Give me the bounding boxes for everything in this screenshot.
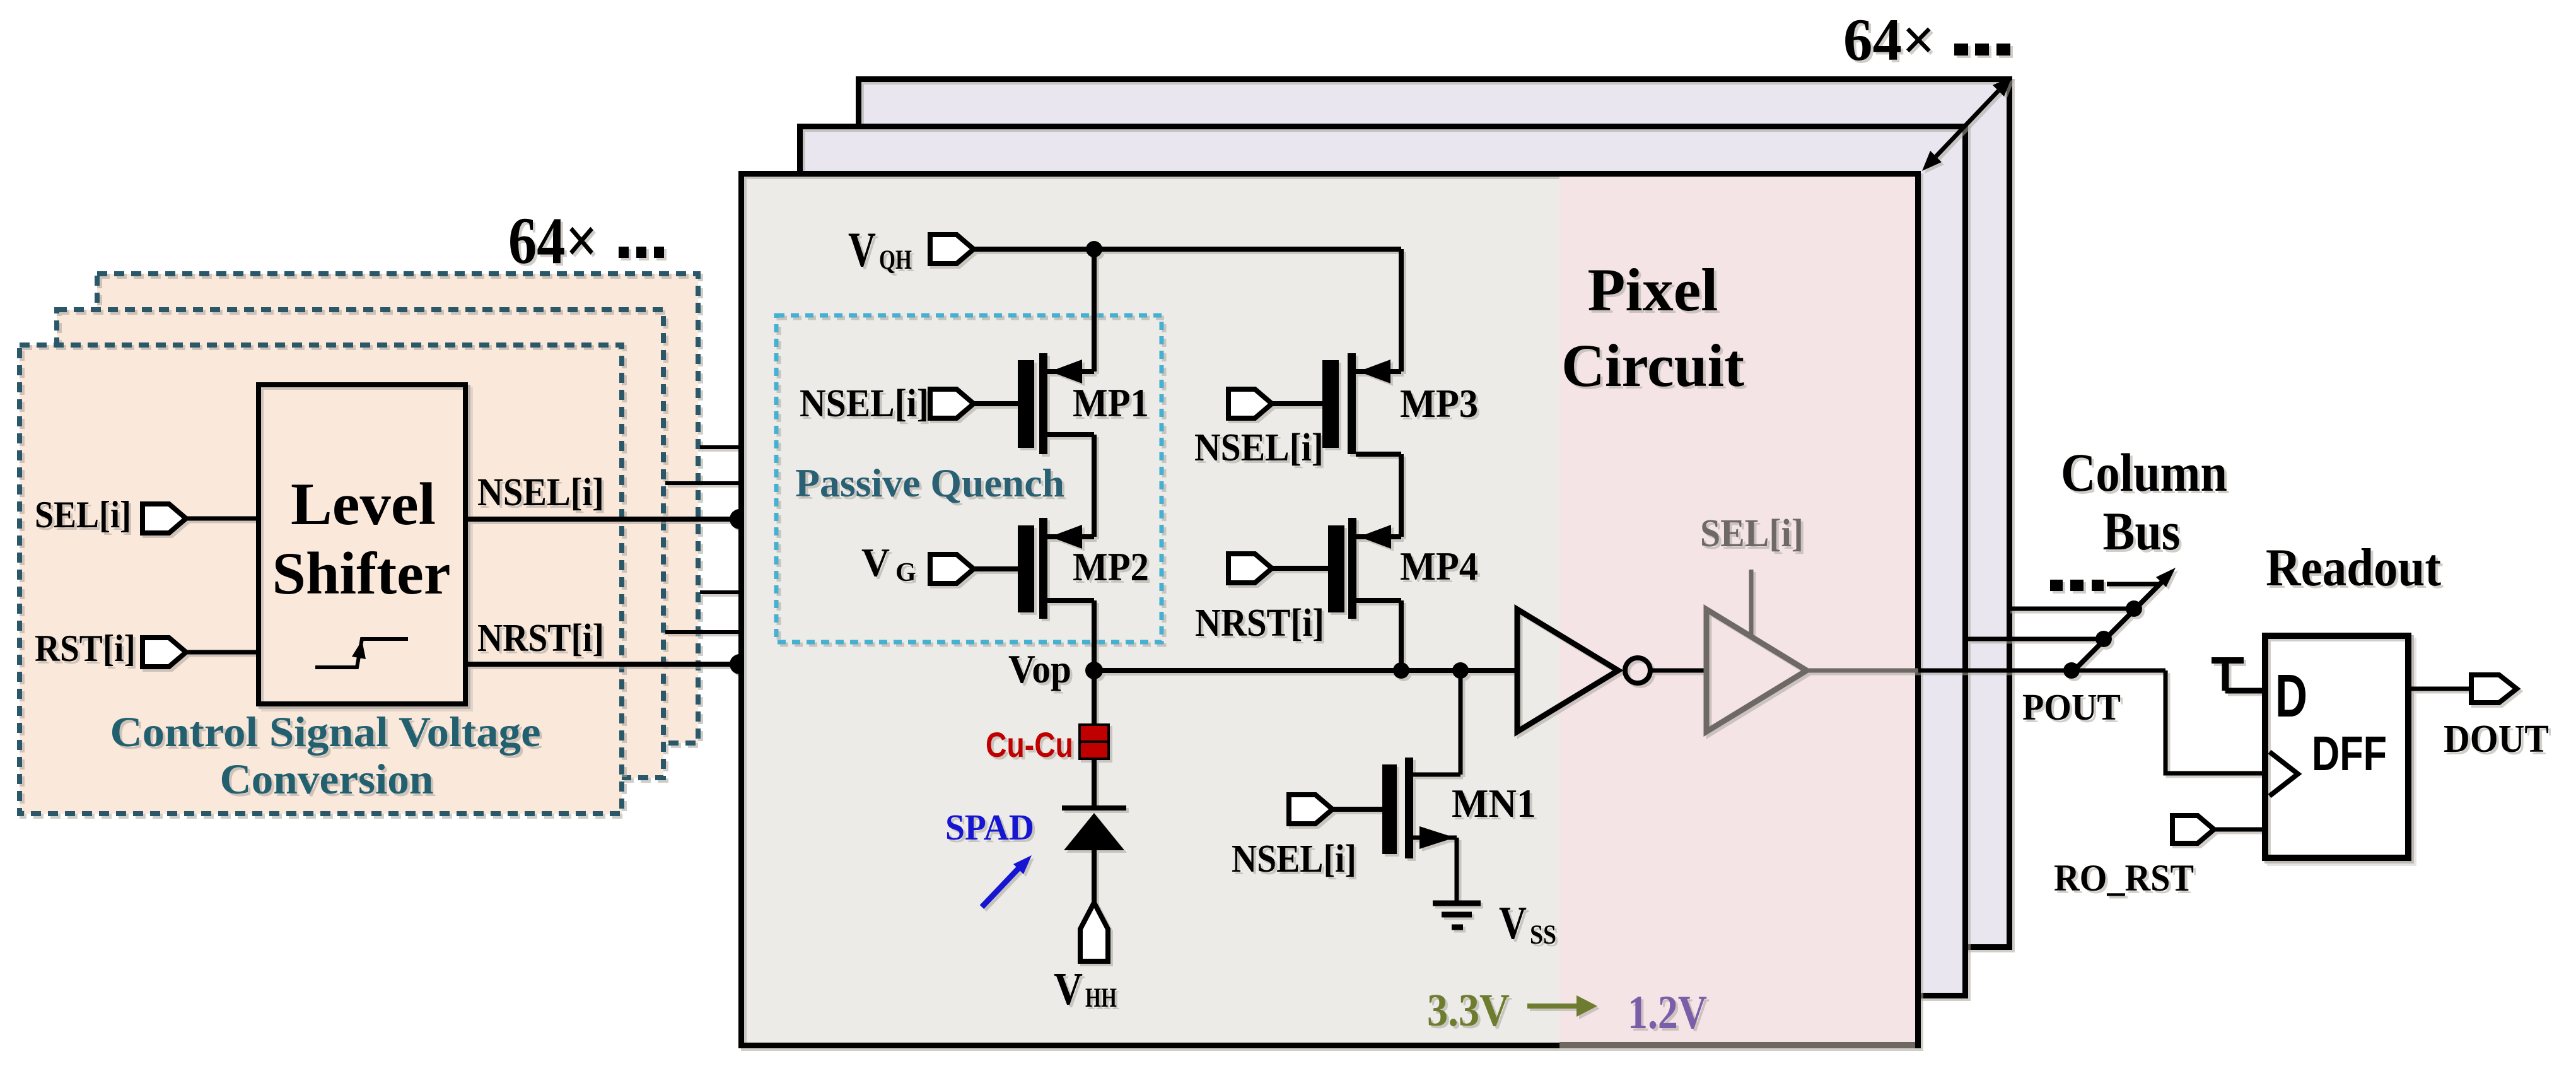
- svg-text:D: D: [2275, 662, 2307, 730]
- svg-text:SPAD: SPAD: [945, 807, 1034, 848]
- svg-text:SEL[i]: SEL[i]: [35, 494, 131, 535]
- svg-text:POUT: POUT: [2022, 686, 2121, 728]
- svg-text:RST[i]: RST[i]: [35, 628, 136, 669]
- svg-text:Control Signal Voltage: Control Signal Voltage: [110, 708, 541, 756]
- svg-text:MP4: MP4: [1400, 544, 1478, 588]
- svg-text:Level: Level: [291, 471, 436, 537]
- svg-text:3.3V: 3.3V: [1427, 985, 1510, 1036]
- svg-text:RO_RST: RO_RST: [2054, 857, 2194, 899]
- svg-text:Readout: Readout: [2266, 538, 2441, 597]
- svg-text:NSEL[i]: NSEL[i]: [1194, 426, 1324, 469]
- svg-text:Pixel: Pixel: [1588, 256, 1718, 324]
- svg-text:V: V: [1499, 898, 1527, 949]
- svg-text:MP1: MP1: [1073, 381, 1149, 425]
- svg-text:Conversion: Conversion: [220, 755, 434, 803]
- svg-text:HH: HH: [1085, 983, 1117, 1013]
- svg-text:NSEL[i]: NSEL[i]: [1232, 838, 1356, 881]
- svg-text:MP3: MP3: [1400, 382, 1478, 426]
- svg-text:DFF: DFF: [2312, 727, 2387, 781]
- svg-text:64×: 64×: [1843, 6, 1935, 73]
- svg-text:NRST[i]: NRST[i]: [477, 617, 604, 660]
- svg-text:QH: QH: [879, 245, 912, 275]
- svg-text:Shifter: Shifter: [272, 540, 451, 607]
- svg-text:Circuit: Circuit: [1561, 332, 1744, 399]
- svg-text:64×: 64×: [508, 204, 598, 278]
- svg-text:NSEL[i]: NSEL[i]: [477, 471, 604, 514]
- svg-text:SEL[i]: SEL[i]: [1700, 512, 1804, 555]
- svg-text:SS: SS: [1530, 920, 1556, 950]
- svg-text:NSEL[i]: NSEL[i]: [800, 382, 929, 425]
- svg-text:Bus: Bus: [2103, 501, 2181, 561]
- svg-text:Passive Quench: Passive Quench: [795, 460, 1064, 505]
- svg-text:G: G: [895, 558, 916, 587]
- svg-text:Cu-Cu: Cu-Cu: [986, 725, 1073, 764]
- svg-text:Vop: Vop: [1008, 647, 1071, 691]
- svg-text:Column: Column: [2061, 442, 2227, 503]
- svg-text:MN1: MN1: [1452, 781, 1536, 826]
- svg-text:V: V: [861, 541, 890, 585]
- svg-text:V: V: [1054, 963, 1083, 1014]
- svg-text:V: V: [848, 222, 876, 277]
- svg-text:1.2V: 1.2V: [1628, 986, 1707, 1039]
- svg-text:NRST[i]: NRST[i]: [1195, 602, 1324, 645]
- svg-text:MP2: MP2: [1073, 545, 1149, 589]
- svg-text:DOUT: DOUT: [2444, 718, 2549, 761]
